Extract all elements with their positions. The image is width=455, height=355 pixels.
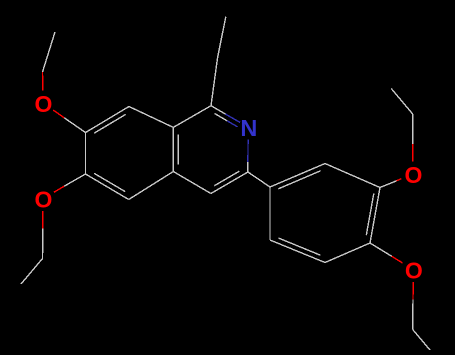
double bond C8a=C4a fusion [172,127,174,171]
double bond C3p=C4p inner [366,194,374,236]
double bond C3p=C4p [370,188,380,244]
double bond C7=C8 [86,107,130,133]
svg-text:O: O [405,258,423,284]
double bond C1=N2 inner [215,114,228,121]
svg-text:O: O [35,187,53,213]
bond O4-C4p [392,256,403,263]
bond C8a-C1 [173,106,211,128]
bond C4a-C5 [129,172,174,200]
double bond C1p=C2p [270,164,325,188]
bond C7-C6 ring edge [85,133,87,175]
bond CH2-CH3 (top-left ethoxy) [43,32,56,72]
svg-text:O: O [35,91,53,117]
double bond C1p=C2p inner [278,171,320,189]
bond C6p-C1p [269,187,271,240]
double bond C5=C6 [86,174,129,200]
bond C3-C1p biaryl [248,172,270,187]
bond O1-CH2 (top-left ethoxy) [42,72,44,91]
svg-text:N: N [240,115,257,141]
bond C4p-C5p [325,243,370,263]
bond CH2-CH3 (1-ethyl) [218,17,226,58]
bond C1-CH2 (1-ethyl) [211,58,218,106]
bond C8-C8a [129,107,173,128]
bond O1-C7 [53,110,64,118]
bond CH2-CH3 (bottom-left ethoxy) [21,259,43,285]
double bond C3=C4 inner [214,171,239,186]
bond C4-C4a [173,172,211,194]
double bond C8a=C4a fusion inner [177,134,179,164]
bond O3-CH2 (right-top ethoxy) [412,144,414,162]
bond N2-C3 [247,140,249,162]
svg-text:O: O [405,162,423,188]
bond O3-C3p [397,179,402,181]
bond O2-C6 [54,186,64,192]
double bond C1=N2 [211,106,226,114]
double bond C5p=C6p inner [278,238,320,255]
bond CH2-CH3 (right-bottom ethoxy) [413,330,435,355]
double bond C3=C4 [211,172,248,194]
bond CH2-CH3 (right-top ethoxy) [391,89,413,115]
bond O4-CH2 (right-bottom ethoxy) [412,282,414,300]
bond O2-CH2 (bottom-left ethoxy) [42,211,44,229]
bond C2p-C3p [325,164,380,188]
double bond C5p=C6p [270,240,325,263]
double bond C5=C6 inner [94,173,125,191]
double bond C7=C8 inner [94,114,126,133]
